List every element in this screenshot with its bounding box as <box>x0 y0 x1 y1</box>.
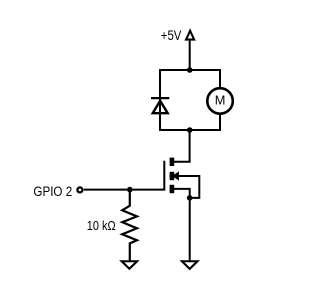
svg-text:GPIO 2: GPIO 2 <box>33 184 72 199</box>
svg-text:M: M <box>215 93 226 108</box>
svg-text:+5V: +5V <box>161 28 182 43</box>
svg-text:10 kΩ: 10 kΩ <box>87 218 116 233</box>
